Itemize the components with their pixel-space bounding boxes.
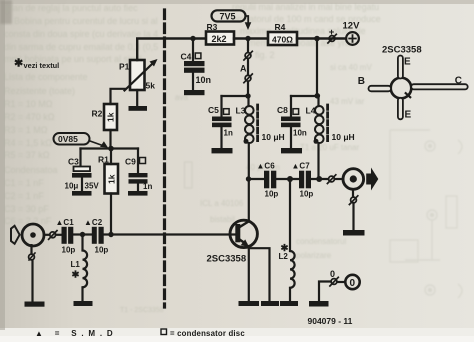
inductor L3 10uH (236, 96, 285, 144)
wire tank feed to C8 and L4 (291, 95, 319, 97)
svg-text:fig. 2: fig. 2 (255, 50, 275, 60)
svg-text:0V85: 0V85 (58, 134, 78, 144)
ground under output BNC (343, 230, 365, 236)
svg-text:10 μH: 10 μH (262, 132, 285, 142)
svg-text:43 mV iar: 43 mV iar (330, 97, 365, 106)
wire contact to C1 (56, 234, 62, 236)
svg-text:1k: 1k (107, 174, 117, 184)
svg-text:E: E (405, 110, 412, 121)
ground under C3 (72, 191, 92, 196)
svg-text:C9: C9 (125, 157, 136, 167)
resistor R2 1k (92, 104, 118, 130)
svg-text:✱: ✱ (14, 58, 23, 70)
wire R3 to R4 (234, 37, 268, 39)
ground under P1 (129, 106, 148, 111)
svg-text:R5 = 37 kΩ: R5 = 37 kΩ (4, 150, 50, 160)
inductor L2 (279, 179, 295, 301)
wire C1 to C2 (73, 233, 92, 235)
inductor L1 (71, 235, 88, 302)
resistor R3 2k2 (206, 22, 234, 45)
capacitor C4 10n (181, 39, 212, 91)
svg-text:10p: 10p (62, 246, 76, 255)
svg-text:0: 0 (350, 278, 356, 289)
node A link with contacts (240, 39, 252, 97)
svg-text:12V: 12V (343, 21, 361, 32)
contact circle under BNC (29, 245, 35, 301)
svg-text:R4: R4 (275, 22, 286, 32)
svg-text:L3: L3 (236, 106, 246, 116)
wire L3 to collector (248, 143, 250, 221)
svg-text:0: 0 (330, 269, 335, 279)
svg-text:▲C2: ▲C2 (84, 218, 103, 227)
svg-text:2SC3358: 2SC3358 (207, 254, 247, 265)
screening divider dashed line (163, 10, 166, 307)
svg-text:+: + (329, 27, 335, 38)
svg-text:C8: C8 (277, 105, 288, 115)
svg-text:1k: 1k (106, 112, 116, 122)
svg-text:consta din doua spire (cu deri: consta din doua spire (cu derivatie la 4 (4, 29, 158, 39)
callout 0V85 (54, 133, 109, 148)
svg-text:regulii mai analizei in mai bi: regulii mai analizei in mai bine legatu (232, 2, 379, 12)
ground under emitter branch (261, 301, 279, 306)
svg-text:470Ω: 470Ω (272, 34, 293, 44)
svg-text:1n: 1n (224, 129, 233, 138)
ground under C8 (281, 148, 302, 153)
legend condensator disc (161, 329, 245, 338)
svg-text:condensatorul: condensatorul (296, 237, 346, 246)
terminal 0 contact (319, 269, 345, 301)
svg-text:R3 = 1 MΩ: R3 = 1 MΩ (4, 125, 48, 135)
svg-text:▲C1: ▲C1 (56, 218, 75, 227)
svg-text:T1 - 2SC3358: T1 - 2SC3358 (120, 307, 164, 314)
ground under C4 (184, 90, 205, 95)
junction node C1/C2/L1 (80, 232, 85, 237)
junction node collector/C6 (246, 176, 251, 181)
svg-text:▲C6: ▲C6 (257, 162, 276, 171)
svg-text:L4: L4 (306, 106, 316, 116)
wire contact to output BNC (335, 178, 343, 180)
svg-text:10μ: 10μ (65, 182, 79, 191)
svg-text:C1 = 1 nF: C1 = 1 nF (4, 178, 44, 188)
svg-text:R3: R3 (207, 22, 218, 32)
callout 7V5 (212, 10, 252, 30)
svg-text:R1: R1 (98, 155, 109, 165)
wire R4 to 12V input (297, 37, 346, 39)
wire R1 top to node 0V85 (110, 149, 112, 165)
capacitor C3 10u/35V electrolytic (65, 149, 100, 192)
svg-text:C2 = 1 nF: C2 = 1 nF (4, 191, 44, 201)
output arrow (366, 168, 378, 191)
svg-text:L1: L1 (71, 260, 81, 269)
svg-text:bistabil: bistabil (210, 215, 235, 224)
capacitor C2 10p (SMD) (84, 218, 108, 255)
junction node C7/output (316, 176, 322, 182)
svg-text:B: B (358, 76, 365, 87)
capacitor C8 10n (277, 96, 307, 148)
output BNC connector J2 (343, 169, 364, 190)
ground under L2 (280, 301, 298, 306)
svg-text:5k: 5k (146, 81, 156, 91)
svg-text:A: A (240, 64, 247, 74)
resistor R4 470ohm (268, 22, 297, 45)
svg-text:R2: R2 (92, 109, 103, 119)
capacitor C6 10p (SMD) (257, 162, 279, 199)
ground under L1 (74, 301, 93, 306)
wire R1 bottom to base line (110, 194, 112, 235)
svg-text:E: E (404, 56, 411, 67)
svg-text:▲ = S.M.D: ▲ = S.M.D (35, 329, 117, 338)
svg-text:C3 = 30 pF: C3 = 30 pF (4, 204, 49, 214)
junction node C4 tap (190, 36, 195, 41)
svg-text:C: C (455, 75, 462, 86)
ground under emitter (239, 301, 260, 306)
note: * vezi textul (14, 58, 59, 71)
svg-text:din sarma de cupru emailat de: din sarma de cupru emailat de 0,3 (0,5 (4, 42, 158, 52)
ground under terminal 0 (309, 301, 329, 307)
svg-text:Lista de componente: Lista de componente (4, 72, 88, 82)
wire C7 to output contact (311, 178, 328, 180)
svg-text:R1 = 10 MΩ: R1 = 10 MΩ (4, 99, 53, 109)
svg-text:10p: 10p (265, 190, 279, 199)
svg-text:▲C7: ▲C7 (292, 162, 311, 171)
svg-text:ICL a 40106: ICL a 40106 (200, 199, 244, 208)
svg-text:polarizare: polarizare (296, 251, 332, 260)
svg-text:10n: 10n (196, 75, 212, 85)
potentiometer P1 5k (119, 59, 158, 91)
svg-text:C3: C3 (68, 157, 79, 167)
wire C2 to base of T1 (104, 233, 236, 235)
capacitor C1 10p (SMD) (56, 218, 76, 255)
12V supply terminal (343, 21, 361, 45)
svg-text:R2 = 470 kΩ: R2 = 470 kΩ (4, 112, 55, 122)
svg-text:10n: 10n (293, 129, 307, 138)
wire R2 bottom to node 0V85 (109, 130, 111, 149)
wire BNC to plug contact (44, 234, 50, 236)
wire supply rail down to tank circuits (316, 39, 318, 97)
svg-text:R4 = 1,5 kΩ: R4 = 1,5 kΩ (4, 138, 52, 148)
ground under C5 (212, 148, 233, 153)
ground under input BNC (25, 302, 45, 307)
svg-text:vezi textul: vezi textul (24, 61, 60, 70)
terminal 0 connector (345, 275, 359, 289)
svg-text:✱: ✱ (72, 270, 81, 281)
svg-text:10p: 10p (300, 190, 314, 199)
svg-text:Rezistente (toate): Rezistente (toate) (4, 86, 75, 96)
wire emitter to ground (248, 246, 250, 301)
wire collector node to C6 (249, 178, 265, 180)
wire P1 top to supply rail (137, 39, 206, 61)
ground under C9 (128, 191, 148, 196)
contact circle at input (49, 231, 57, 240)
svg-text:35V: 35V (85, 182, 100, 191)
svg-text:10p: 10p (95, 246, 109, 255)
input BNC connector J1 (22, 224, 44, 246)
svg-text:= condensator disc: = condensator disc (170, 329, 245, 338)
svg-text:si ca 40 mV: si ca 40 mV (330, 63, 372, 72)
svg-text:1n: 1n (143, 182, 152, 191)
wire L4 down to C7 node (317, 143, 319, 179)
wire P1 bottom to ground (136, 90, 138, 106)
svg-text:7V5: 7V5 (220, 12, 236, 22)
junction node supply drop (314, 36, 320, 42)
junction node L2 tap (287, 176, 293, 182)
wire emitter branch right (249, 248, 270, 301)
svg-text:Condensatoa: Condensatoa (4, 165, 58, 175)
wire R2 top to P1 wiper (111, 89, 126, 104)
wire node A feed to C5 and L3 (222, 95, 249, 97)
contact circle under output BNC (349, 189, 357, 230)
svg-text:P1: P1 (119, 62, 130, 72)
resistor R1 1k (98, 155, 118, 194)
inductor L4 10uH (306, 96, 355, 144)
junction node R1 bottom (108, 232, 113, 237)
svg-text:plan de reglaj la punctul auto: plan de reglaj la punctul auto fiec (6, 3, 138, 13)
svg-text:904079 - 11: 904079 - 11 (308, 316, 353, 326)
svg-text:2k2: 2k2 (212, 34, 227, 44)
capacitor C9 1n disc (125, 149, 152, 192)
svg-text:10 μH: 10 μH (332, 132, 355, 142)
transistor T1 2SC3358 (207, 220, 258, 264)
svg-text:C5: C5 (208, 105, 219, 115)
svg-text:C4: C4 (181, 52, 192, 62)
contact circle at output (327, 175, 335, 184)
junction node above L3 (245, 93, 250, 98)
junction node A tap (245, 36, 250, 41)
svg-text:2SC3358: 2SC3358 (382, 45, 422, 56)
node 0V85 junction (81, 146, 139, 152)
capacitor C5 1n disc (208, 96, 233, 148)
capacitor C7 10p (SMD) (292, 162, 314, 199)
pinout diagram 2SC3358 (358, 45, 468, 121)
junction node at tank feed (315, 93, 321, 99)
svg-text:L2: L2 (279, 252, 289, 261)
input plug bracket (11, 226, 20, 244)
wire C6 to C7 (276, 178, 299, 180)
svg-text:Bobina pentru curentul de lucr: Bobina pentru curentul de lucru si al (14, 16, 158, 26)
contact circle 12V with + (328, 27, 336, 43)
svg-text:T1 a 20 uF tanar: T1 a 20 uF tanar (300, 143, 359, 152)
